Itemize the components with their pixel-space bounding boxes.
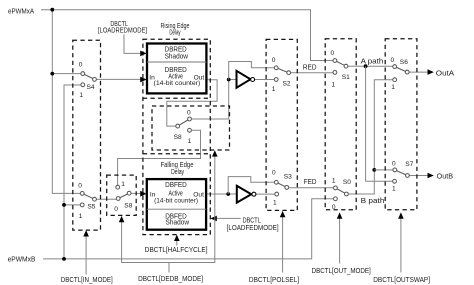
- wire branch to S5 input 1: [64, 204, 80, 206]
- svg-text:S1: S1: [342, 74, 350, 81]
- svg-text:0: 0: [332, 204, 336, 211]
- svg-text:DBCTL[HALFCYCLE]: DBCTL[HALFCYCLE]: [145, 245, 208, 254]
- wire S5 common to S8 lower input 0: [96, 198, 116, 200]
- svg-text:1: 1: [272, 86, 276, 93]
- dashed box S4 S5 IN_MODE: [73, 40, 101, 230]
- switch S6: [391, 57, 410, 91]
- wire ePWMxB vertical up to S4 input 1: [64, 85, 81, 259]
- svg-text:1: 1: [188, 138, 192, 145]
- wire rising bypass to S2 input 0: [229, 62, 275, 80]
- svg-text:0: 0: [114, 206, 118, 213]
- wire A path crossover to S7 input 1: [366, 66, 393, 181]
- switch S7: [392, 160, 414, 192]
- svg-text:1: 1: [391, 84, 395, 91]
- arrow into DBRED In: [140, 77, 146, 83]
- wire S4 common to DBRED In: [96, 78, 140, 80]
- svg-text:OutB: OutB: [437, 171, 454, 180]
- svg-text:0: 0: [331, 50, 335, 57]
- DBFED block: [147, 179, 206, 230]
- switch S3: [272, 170, 292, 207]
- switch S0: [332, 178, 351, 211]
- svg-text:FED: FED: [304, 177, 317, 186]
- svg-text:1: 1: [332, 178, 336, 185]
- switch S4: [79, 62, 97, 99]
- svg-text:OutA: OutA: [436, 68, 455, 77]
- DBRED block: [147, 44, 206, 94]
- svg-text:[LOADFEDMODE]: [LOADFEDMODE]: [227, 223, 279, 232]
- arrow OutA: [428, 69, 434, 75]
- svg-text:S8: S8: [124, 203, 132, 210]
- svg-text:1: 1: [332, 81, 336, 88]
- svg-text:1: 1: [79, 92, 83, 99]
- svg-text:A path: A path: [361, 56, 384, 65]
- control DBCTL[POLSEL]: [249, 211, 299, 284]
- svg-text:0: 0: [79, 62, 83, 69]
- switch S5: [78, 182, 96, 220]
- control DBCTL[HALFCYCLE]: [145, 235, 208, 255]
- svg-text:S8: S8: [174, 134, 182, 141]
- dashed box S2 S3 POLSEL: [266, 39, 297, 210]
- switch S8 lower: [114, 181, 132, 213]
- junction S5 branch: [62, 203, 66, 207]
- switch S8 upper: [174, 110, 192, 145]
- wire B path branch to S7 input 0: [374, 169, 393, 171]
- svg-text:1: 1: [273, 200, 277, 207]
- svg-text:Shadow: Shadow: [165, 52, 189, 61]
- switch S2: [272, 57, 291, 93]
- control DBCTL[IN_MODE]: [61, 230, 113, 284]
- dashed box S6 S7 OUTSWAP: [385, 39, 417, 210]
- svg-text:DBCTL[IN_MODE]: DBCTL[IN_MODE]: [61, 275, 113, 284]
- junction B path node: [372, 168, 376, 172]
- dashed box delay blocks outer: [143, 39, 210, 234]
- svg-text:S7: S7: [405, 161, 413, 168]
- wire S8 upper terminal 1 to S8 lower terminal 1: [118, 130, 201, 185]
- wire FED from S3 common to S0 input 1: [289, 187, 334, 189]
- wire inverter U2 output to S3 input 1: [256, 193, 275, 195]
- wire ePWMxA top rail to S1 input 0: [41, 10, 333, 61]
- svg-text:Delay: Delay: [171, 167, 184, 176]
- switch S1: [331, 50, 351, 89]
- wire branch to S4 input 0: [52, 73, 81, 75]
- svg-text:1: 1: [79, 213, 83, 220]
- svg-text:DBCTL[DEDB_MODE]: DBCTL[DEDB_MODE]: [138, 274, 203, 283]
- svg-text:0: 0: [392, 160, 396, 167]
- arrow OutB: [428, 173, 434, 179]
- inverter U1 rising: [237, 71, 255, 88]
- arrow LOADFEDMODE into DBFED box: [210, 216, 216, 222]
- inverter U2 falling: [237, 186, 256, 203]
- wire S6 common to OutA: [409, 71, 429, 73]
- dashed box S8 upper DEDB: [152, 106, 230, 150]
- svg-text:0: 0: [272, 57, 276, 64]
- svg-text:0: 0: [78, 182, 82, 189]
- svg-text:ePWMxB: ePWMxB: [8, 255, 36, 264]
- svg-text:Out: Out: [194, 74, 205, 81]
- wire ePWMxA vertical drop to S5 input 0: [52, 10, 80, 194]
- svg-text:0: 0: [272, 170, 276, 177]
- control DBCTL[OUT_MODE]: [312, 212, 371, 275]
- wire ePWMxB bottom rail rising to S0 input 0: [43, 199, 334, 259]
- svg-text:S6: S6: [400, 59, 408, 66]
- dashed box S1 S0 OUT_MODE: [325, 39, 356, 210]
- svg-text:ePWMxA: ePWMxA: [8, 6, 34, 15]
- arrow into DBFED In: [140, 191, 146, 197]
- svg-text:DBCTL[OUTSWAP]: DBCTL[OUTSWAP]: [373, 275, 430, 284]
- wire LOADFEDMODE control: [215, 217, 241, 219]
- wire B path from S0 common up to S6 input 1: [348, 80, 393, 194]
- junction inverter input node: [227, 78, 231, 82]
- wire S8 lower common to DBFED In: [131, 192, 140, 194]
- svg-text:In: In: [150, 192, 156, 199]
- svg-text:Delay: Delay: [169, 27, 180, 36]
- svg-text:Active: Active: [169, 188, 183, 197]
- svg-text:[LOADREDMODE]: [LOADREDMODE]: [98, 26, 147, 35]
- wire LOADREDMODE control: [124, 35, 140, 54]
- svg-text:DBCTL[POLSEL]: DBCTL[POLSEL]: [249, 275, 299, 284]
- svg-text:RED: RED: [303, 62, 317, 71]
- svg-text:0: 0: [187, 110, 191, 117]
- svg-text:1: 1: [392, 185, 396, 192]
- svg-text:Active: Active: [168, 71, 183, 80]
- wire DBRED Out to S8 upper common: [167, 80, 217, 126]
- wire DBFED Out to inverter U2 input: [206, 193, 237, 195]
- svg-text:(14-bit counter): (14-bit counter): [154, 197, 198, 204]
- wire S8 upper terminal 0 to inverter input: [191, 80, 236, 120]
- svg-text:S2: S2: [283, 80, 291, 87]
- dashed box S8 lower DEDB: [107, 175, 137, 215]
- svg-text:DBCTL[OUT_MODE]: DBCTL[OUT_MODE]: [312, 266, 371, 275]
- svg-text:1: 1: [121, 181, 125, 188]
- svg-text:S4: S4: [87, 84, 95, 91]
- svg-text:Shadow: Shadow: [166, 218, 190, 227]
- junction falling inverter input node: [226, 192, 230, 196]
- junction ePWMxB rail tap: [62, 257, 66, 261]
- svg-text:S5: S5: [87, 204, 95, 211]
- svg-text:S0: S0: [343, 179, 351, 186]
- arrow LOADREDMODE into DBRED: [140, 51, 146, 57]
- control DBCTL[OUTSWAP]: [373, 212, 430, 283]
- junction ePWMxA rail tap: [50, 8, 54, 12]
- svg-text:In: In: [149, 74, 155, 81]
- wire inverter U1 output to S2 input 1: [255, 79, 275, 81]
- svg-text:0: 0: [391, 57, 395, 64]
- dashed divider above falling delay: [143, 153, 210, 155]
- wire A path from S1 common to S6 input 0: [348, 65, 393, 67]
- junction S4 branch: [50, 72, 54, 76]
- wire falling bypass to S3 input 0: [228, 177, 274, 194]
- control DBCTL[DEDB_MODE]: [119, 150, 218, 283]
- svg-text:B path: B path: [361, 196, 385, 205]
- dashed divider below rising delay: [143, 97, 210, 99]
- junction A path node: [364, 64, 368, 68]
- wire S7 common to OutB: [409, 175, 428, 177]
- wire RED from S2 common to S1 input 1: [291, 72, 334, 74]
- svg-text:Out: Out: [193, 192, 204, 199]
- svg-text:S3: S3: [284, 173, 292, 180]
